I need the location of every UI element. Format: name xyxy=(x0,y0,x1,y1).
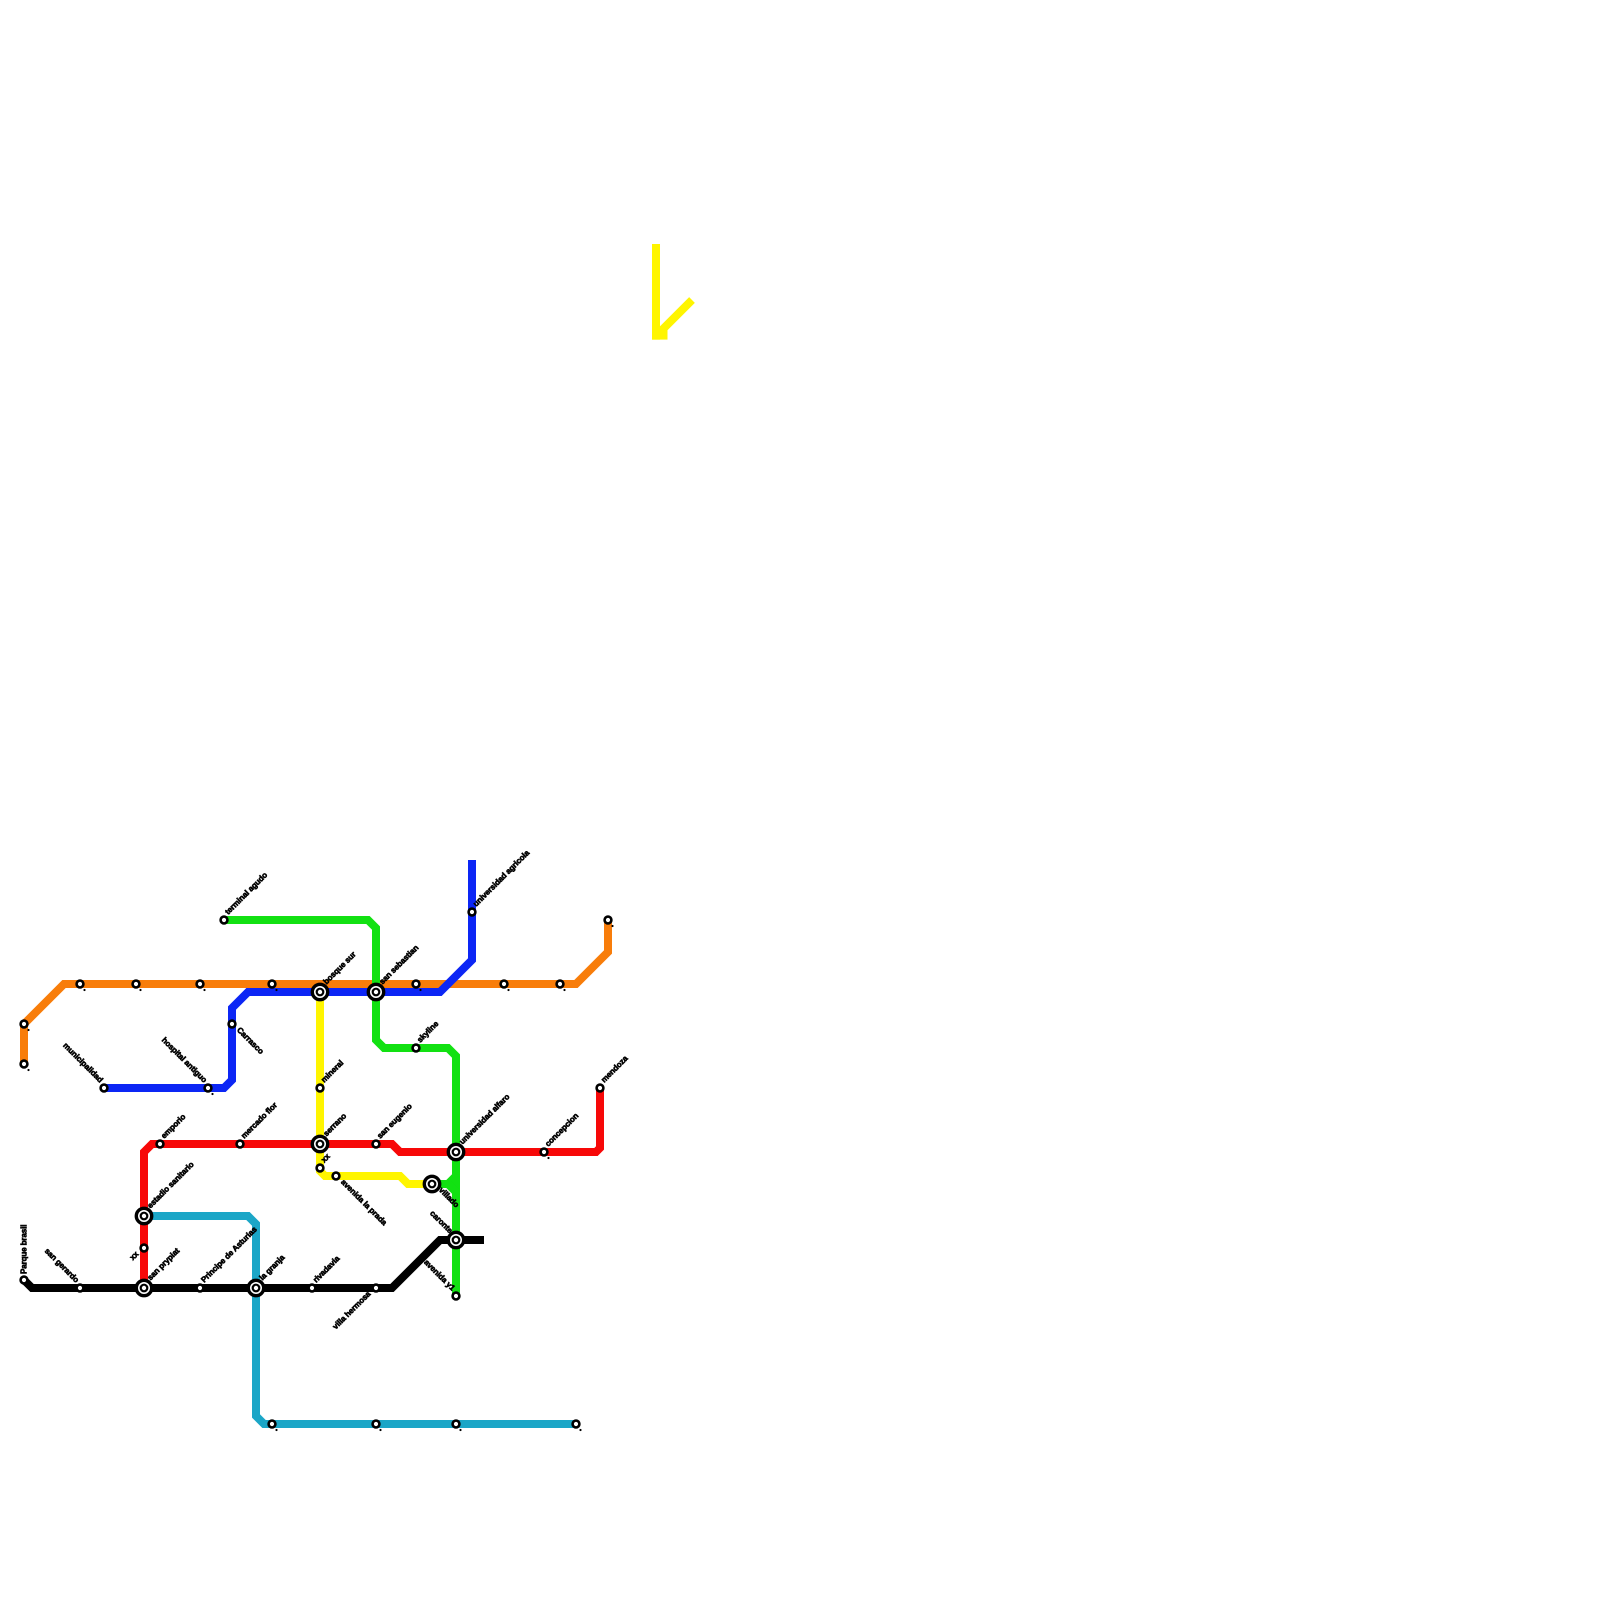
svg-text:Parque brasil: Parque brasil xyxy=(20,1225,29,1274)
cyan line xyxy=(144,1216,576,1424)
orange line xyxy=(24,920,608,1064)
tiny dots xyxy=(27,925,613,1431)
blue line xyxy=(104,860,472,1088)
labels xyxy=(20,848,631,1331)
small stations xyxy=(21,909,612,1428)
yellow detached segment diagonal xyxy=(660,300,692,332)
green stub to villado xyxy=(432,1176,456,1184)
interchange stations xyxy=(136,984,463,1295)
yellow segment foot xyxy=(652,330,668,340)
red line xyxy=(144,1088,600,1288)
green stub lower flare xyxy=(448,1184,456,1192)
yellow line xyxy=(320,992,432,1184)
black line xyxy=(24,1240,484,1288)
green line xyxy=(224,920,456,1296)
yellow detached segment vertical xyxy=(652,244,660,340)
